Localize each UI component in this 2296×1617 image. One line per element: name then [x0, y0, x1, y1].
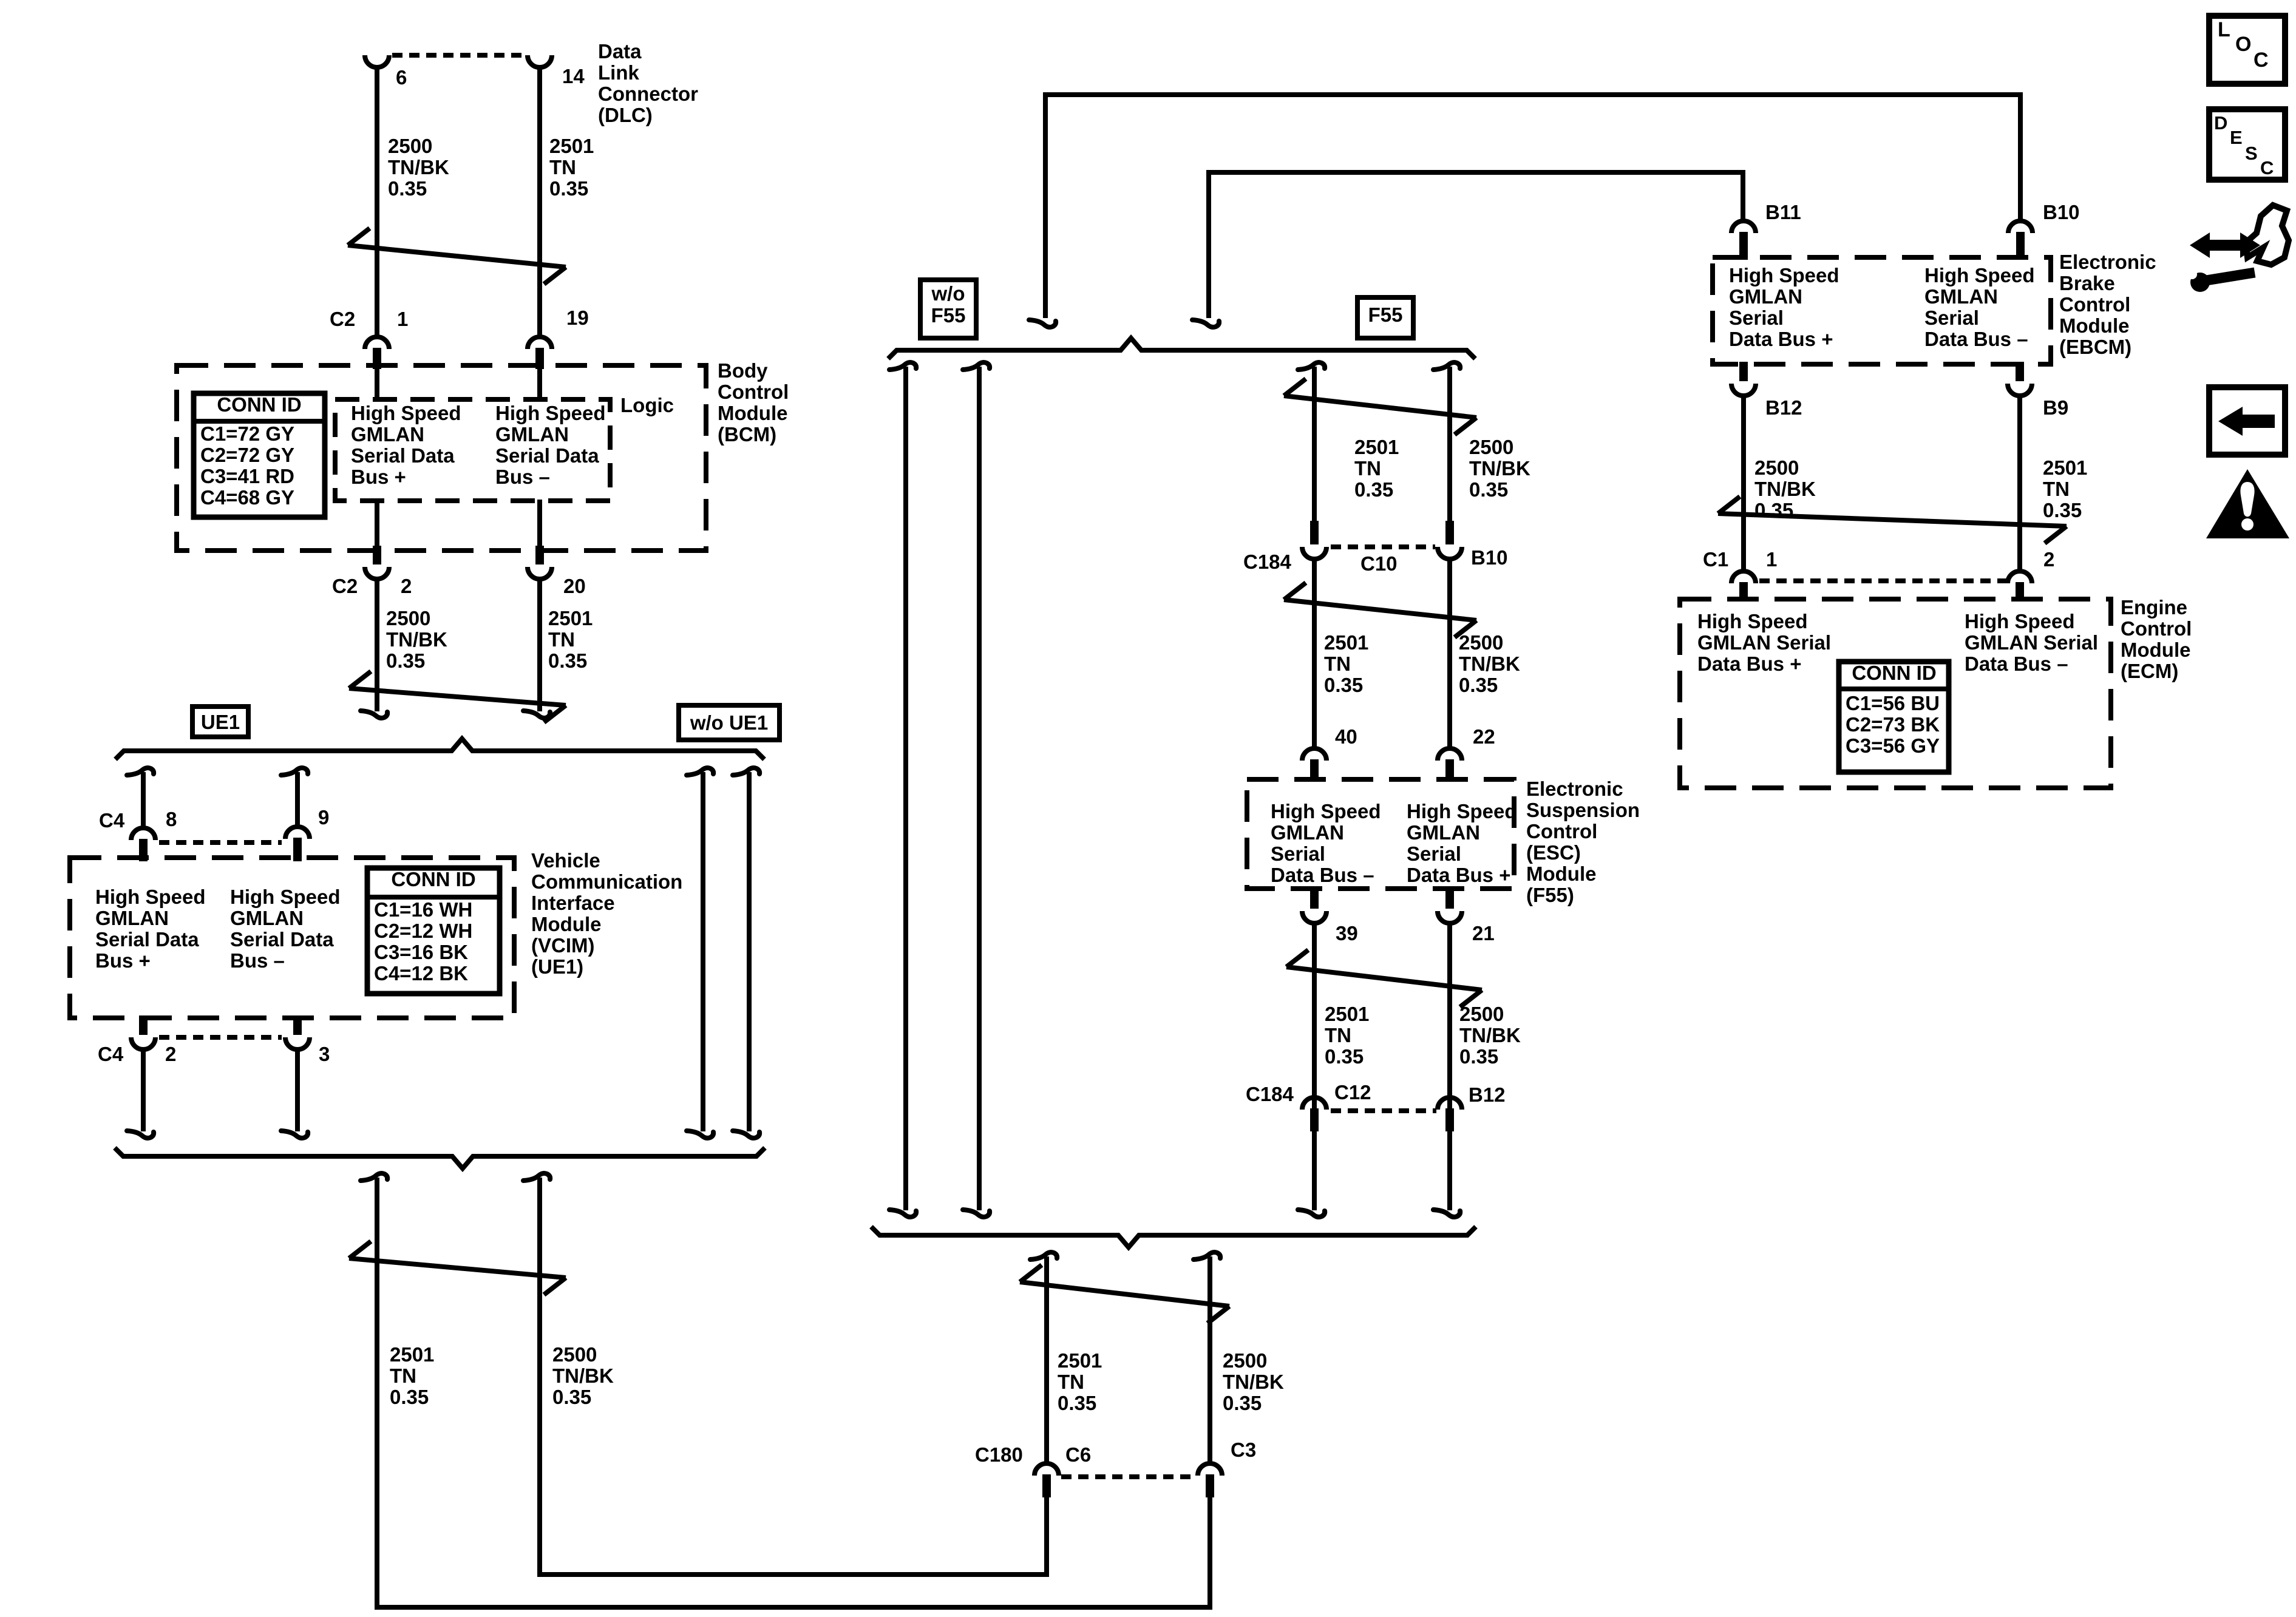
- label C180: [975, 1443, 1023, 1466]
- svg-text:TN: TN: [549, 156, 576, 178]
- svg-text:Serial: Serial: [1729, 307, 1784, 329]
- svg-text:(DLC): (DLC): [598, 104, 653, 126]
- svg-text:0.35: 0.35: [1459, 1045, 1498, 1068]
- BCM pin C2-20 terminal: [528, 546, 552, 579]
- section brace F55 bottom: [871, 1227, 1476, 1247]
- svg-text:Data Bus +: Data Bus +: [1697, 653, 1801, 675]
- svg-text:2501: 2501: [1325, 1003, 1369, 1025]
- svg-text:Bus +: Bus +: [95, 949, 151, 972]
- svg-text:TN: TN: [1324, 653, 1351, 675]
- label pin 1 ecm: [1766, 548, 1777, 571]
- VCIM pins 8-9 dashed link: [159, 840, 282, 845]
- svg-text:Bus –: Bus –: [495, 466, 550, 488]
- svg-text:Link: Link: [598, 61, 639, 84]
- svg-text:9: 9: [318, 806, 329, 829]
- VCIM label High Speed GMLAN Serial Data Bus +: [95, 886, 206, 972]
- svg-text:8: 8: [166, 808, 177, 830]
- label pin 22: [1473, 725, 1495, 748]
- svg-text:2501: 2501: [390, 1343, 434, 1366]
- BCM pin C2-2 terminal: [365, 546, 389, 579]
- svg-text:2501: 2501: [1354, 436, 1399, 458]
- svg-text:C4: C4: [98, 1043, 124, 1065]
- svg-text:High Speed: High Speed: [1924, 264, 2035, 286]
- label B12 inline: [1469, 1083, 1506, 1106]
- inline connector C180 C6 terminal: [1034, 1463, 1059, 1497]
- wire 2500 TN/BK to C3: [1194, 1252, 1220, 1462]
- svg-text:Electronic: Electronic: [2059, 251, 2156, 273]
- svg-text:20: 20: [563, 575, 586, 597]
- VCIM pins 2-3 dashed link: [159, 1035, 282, 1040]
- label pin 8: [166, 808, 177, 830]
- label wire 2501 TN 0.35 g: [1058, 1349, 1102, 1414]
- svg-text:Vehicle: Vehicle: [531, 849, 600, 872]
- EBCM pin B11 terminal: [1731, 221, 1756, 260]
- label wire 2501 TN 0.35 h: [2043, 456, 2087, 521]
- icon DESC box: [2209, 109, 2285, 180]
- svg-text:22: 22: [1473, 725, 1495, 748]
- inline connector C3 terminal: [1198, 1463, 1222, 1497]
- label wire 2501 TN 0.35 e: [1324, 631, 1368, 696]
- svg-text:Bus –: Bus –: [230, 949, 285, 972]
- svg-text:GMLAN Serial: GMLAN Serial: [1965, 631, 2098, 654]
- svg-text:S: S: [2245, 143, 2258, 164]
- connector DLC pin 14 terminal: [528, 55, 552, 67]
- svg-text:C3=16 BK: C3=16 BK: [374, 941, 468, 963]
- svg-text:C3: C3: [1231, 1439, 1256, 1461]
- svg-text:C2: C2: [330, 308, 355, 330]
- svg-text:TN: TN: [390, 1364, 416, 1387]
- VCIM pin C4-8 terminal: [131, 828, 155, 861]
- svg-text:2500: 2500: [1469, 436, 1513, 458]
- svg-text:B10: B10: [1471, 546, 1508, 569]
- label wire 2500 TN/BK 0.35 c: [552, 1343, 614, 1408]
- svg-text:0.35: 0.35: [2043, 499, 2082, 521]
- svg-text:Control: Control: [2121, 617, 2192, 640]
- svg-text:TN/BK: TN/BK: [1459, 653, 1520, 675]
- ESC pin 40 terminal: [1302, 748, 1326, 782]
- svg-text:w/o UE1: w/o UE1: [690, 711, 768, 734]
- wire to EBCM B10 top run: [1029, 95, 2020, 327]
- svg-text:Electronic: Electronic: [1526, 778, 1623, 800]
- svg-text:O: O: [2235, 33, 2251, 56]
- svg-text:(BCM): (BCM): [718, 423, 776, 446]
- svg-text:Module: Module: [718, 402, 787, 424]
- label pin 1: [397, 308, 408, 330]
- svg-text:0.35: 0.35: [548, 649, 587, 672]
- svg-text:Interface: Interface: [531, 892, 615, 914]
- svg-text:F55: F55: [931, 304, 966, 327]
- svg-text:UE1: UE1: [201, 711, 240, 733]
- svg-text:Data Bus +: Data Bus +: [1407, 864, 1510, 886]
- ESC pin 21 terminal: [1438, 886, 1462, 923]
- svg-text:C6: C6: [1065, 1443, 1091, 1466]
- module box ECM: [1680, 599, 2111, 788]
- svg-text:Serial Data: Serial Data: [495, 444, 599, 467]
- wire 2500 TN/BK from DLC pin 6: [375, 66, 379, 336]
- label B11: [1765, 201, 1801, 223]
- twisted pair symbol T3: [349, 1241, 566, 1295]
- wire C12 down: [1298, 1130, 1325, 1217]
- svg-text:B11: B11: [1765, 201, 1801, 223]
- svg-text:C: C: [2254, 49, 2269, 72]
- EBCM pin B10 terminal: [2008, 221, 2033, 260]
- svg-text:0.35: 0.35: [1324, 674, 1363, 696]
- label C10: [1360, 552, 1398, 575]
- C10-B10 dashed link: [1331, 544, 1435, 549]
- bypass wire w/o F55 right: [963, 362, 990, 1217]
- label pin 20: [563, 575, 586, 597]
- section brace UE1 bottom: [115, 1148, 765, 1168]
- label pin 6: [396, 66, 407, 89]
- wire 2501 TN from DLC pin 14: [537, 66, 542, 336]
- svg-text:TN/BK: TN/BK: [386, 628, 447, 651]
- svg-text:14: 14: [562, 65, 585, 87]
- svg-text:Data Bus +: Data Bus +: [1729, 328, 1833, 350]
- twisted pair symbol T4: [1284, 379, 1476, 435]
- svg-text:2500: 2500: [1459, 1003, 1504, 1025]
- svg-text:High Speed: High Speed: [1697, 610, 1808, 632]
- svg-text:Data Bus –: Data Bus –: [1965, 653, 2068, 675]
- wire 2500 TN/BK BCM to VCIM: [361, 580, 387, 718]
- wire ESC 21 down: [1433, 923, 1460, 1217]
- svg-text:TN/BK: TN/BK: [388, 156, 449, 178]
- svg-text:2500: 2500: [1223, 1349, 1267, 1372]
- svg-text:TN/BK: TN/BK: [552, 1364, 614, 1387]
- svg-text:0.35: 0.35: [549, 177, 588, 200]
- svg-text:1: 1: [397, 308, 408, 330]
- BCM label High Speed GMLAN Serial Data Bus -: [495, 402, 606, 488]
- svg-text:6: 6: [396, 66, 407, 89]
- label wire 2501 TN 0.35 f: [1325, 1003, 1369, 1068]
- label wire 2500 TN/BK 0.35 f: [1459, 1003, 1521, 1068]
- svg-text:19: 19: [566, 307, 589, 329]
- label box UE1: [192, 707, 248, 737]
- label C184 upper: [1243, 551, 1292, 573]
- svg-text:TN: TN: [548, 628, 575, 651]
- label wire 2500 TN/BK 0.35 e: [1459, 631, 1520, 696]
- svg-text:C2=72 GY: C2=72 GY: [200, 444, 294, 466]
- BCM label High Speed GMLAN Serial Data Bus +: [351, 402, 461, 488]
- svg-text:C184: C184: [1243, 551, 1292, 573]
- svg-text:C184: C184: [1246, 1083, 1294, 1105]
- VCIM pin C4-9 terminal: [285, 827, 310, 861]
- svg-text:Serial: Serial: [1271, 842, 1325, 865]
- ECM CONN ID table: [1839, 662, 1949, 772]
- label C184 lower: [1246, 1083, 1294, 1105]
- label pin 21: [1472, 922, 1495, 944]
- svg-text:C: C: [2260, 157, 2274, 178]
- svg-text:B12: B12: [1469, 1083, 1506, 1106]
- section brace UE1 top: [115, 739, 764, 759]
- label pin 2 vcim: [165, 1043, 176, 1065]
- module box VCIM: [70, 858, 514, 1018]
- svg-text:C3=56 GY: C3=56 GY: [1846, 734, 1940, 757]
- svg-text:3: 3: [319, 1043, 330, 1065]
- svg-text:D: D: [2214, 112, 2227, 134]
- label C6: [1065, 1443, 1091, 1466]
- module box ESC: [1247, 779, 1514, 889]
- icon warning triangle: [2206, 469, 2289, 538]
- svg-text:2: 2: [401, 575, 412, 597]
- module box BCM: [177, 365, 706, 551]
- svg-text:w/o: w/o: [931, 282, 965, 305]
- svg-text:High Speed: High Speed: [1271, 800, 1381, 822]
- BCM pin C2-19 terminal: [528, 337, 552, 369]
- label wire 2501 TN 0.35 b: [548, 607, 593, 672]
- wire VCIM pin2 down: [127, 1051, 154, 1138]
- VCIM pin C4-3 terminal: [285, 1015, 310, 1049]
- svg-text:0.35: 0.35: [552, 1386, 591, 1408]
- wire C6 down to bottom run: [1044, 1496, 1049, 1575]
- connector DLC pin 6 terminal: [365, 55, 389, 67]
- label C4 lower: [98, 1043, 124, 1065]
- label pin 40: [1335, 725, 1357, 748]
- svg-text:Module: Module: [531, 913, 601, 935]
- inline connector B10 terminal: [1438, 521, 1462, 559]
- svg-text:Brake: Brake: [2059, 272, 2115, 294]
- label C2 lower: [332, 575, 358, 597]
- svg-text:(EBCM): (EBCM): [2059, 336, 2131, 358]
- bypass wire w/o UE1 left: [687, 768, 713, 1138]
- svg-text:GMLAN: GMLAN: [1407, 821, 1480, 844]
- wire C10 to ESC 40: [1312, 559, 1317, 747]
- twisted pair symbol T1: [348, 228, 566, 284]
- svg-text:GMLAN: GMLAN: [230, 907, 304, 929]
- svg-text:(UE1): (UE1): [531, 955, 583, 978]
- svg-text:High Speed: High Speed: [495, 402, 606, 424]
- svg-text:Module: Module: [1526, 863, 1596, 885]
- wire B10 to ESC 22: [1447, 559, 1452, 747]
- svg-text:TN: TN: [1058, 1371, 1084, 1393]
- ECM label High Speed GMLAN Serial Data Bus +: [1697, 610, 1831, 675]
- svg-text:GMLAN: GMLAN: [1271, 821, 1344, 844]
- wire ESC 39 down: [1298, 923, 1325, 1217]
- svg-text:Control: Control: [1526, 820, 1597, 842]
- svg-text:21: 21: [1472, 922, 1495, 944]
- svg-text:Data Bus –: Data Bus –: [1924, 328, 2028, 350]
- EBCM label High Speed GMLAN Serial Data Bus -: [1924, 264, 2035, 350]
- icon double arrow with component and wrench: [2187, 205, 2289, 292]
- label wire 2501 TN 0.35: [549, 135, 594, 200]
- BCM internal wire pin1: [375, 368, 379, 401]
- svg-text:C1=16 WH: C1=16 WH: [374, 898, 472, 921]
- wire to EBCM B11 top run: [1192, 172, 1743, 327]
- label C2: [330, 308, 355, 330]
- svg-text:C2=73 BK: C2=73 BK: [1846, 713, 1940, 736]
- svg-text:0.35: 0.35: [1325, 1045, 1364, 1068]
- label wire 2501 TN 0.35 c: [390, 1343, 434, 1408]
- label pin 2 ecm: [2043, 548, 2054, 571]
- svg-text:2501: 2501: [1058, 1349, 1102, 1372]
- wire VCIM pin3 down: [281, 1051, 308, 1138]
- svg-text:Serial Data: Serial Data: [351, 444, 455, 467]
- inline connector C184 C12 terminal: [1302, 1097, 1326, 1131]
- ECM label High Speed GMLAN Serial Data Bus -: [1965, 610, 2098, 675]
- VCIM label High Speed GMLAN Serial Data Bus -: [230, 886, 341, 972]
- svg-text:39: 39: [1336, 922, 1358, 944]
- label pin 19: [566, 307, 589, 329]
- label pin 2: [401, 575, 412, 597]
- twisted pair symbol T7: [1020, 1265, 1229, 1323]
- label Engine Control Module (ECM): [2121, 596, 2192, 682]
- svg-text:F55: F55: [1368, 303, 1403, 326]
- svg-text:GMLAN: GMLAN: [95, 907, 169, 929]
- svg-text:C1: C1: [1703, 548, 1728, 571]
- svg-text:High Speed: High Speed: [95, 886, 206, 908]
- svg-text:C3=41 RD: C3=41 RD: [200, 465, 294, 487]
- wire B12 down: [1433, 1130, 1460, 1217]
- wire to VCIM pin 9: [281, 768, 308, 825]
- svg-text:TN: TN: [2043, 478, 2070, 500]
- svg-text:C4: C4: [99, 809, 125, 832]
- svg-text:High Speed: High Speed: [351, 402, 461, 424]
- label Electronic Brake Control Module (EBCM): [2059, 251, 2156, 358]
- svg-text:0.35: 0.35: [1469, 478, 1508, 501]
- label pin 3 vcim: [319, 1043, 330, 1065]
- label B10: [2043, 201, 2080, 223]
- icon back arrow box: [2209, 387, 2285, 455]
- svg-text:2500: 2500: [388, 135, 432, 157]
- label box w/o UE1: [679, 705, 779, 740]
- label box F55: [1357, 297, 1413, 338]
- svg-text:E: E: [2230, 127, 2243, 148]
- wire 2500 TN/BK to B10: [1433, 362, 1460, 522]
- label Electronic Suspension Control (ESC) Module (F55): [1526, 778, 1640, 906]
- VCIM CONN ID table: [367, 868, 500, 994]
- ESC label High Speed GMLAN Serial Data Bus -: [1271, 800, 1381, 886]
- svg-text:0.35: 0.35: [1223, 1392, 1262, 1414]
- C12-B12 dashed link: [1331, 1108, 1436, 1113]
- svg-text:GMLAN Serial: GMLAN Serial: [1697, 631, 1831, 654]
- svg-text:2500: 2500: [552, 1343, 597, 1366]
- svg-text:TN/BK: TN/BK: [1469, 457, 1530, 480]
- label B12: [1765, 396, 1802, 419]
- svg-text:Module: Module: [2059, 314, 2129, 337]
- svg-text:Engine: Engine: [2121, 596, 2187, 619]
- svg-text:(VCIM): (VCIM): [531, 934, 594, 957]
- twisted pair symbol T8: [1718, 497, 2067, 543]
- BCM CONN ID table: [194, 393, 325, 517]
- label wire 2500 TN/BK 0.35 g: [1223, 1349, 1284, 1414]
- svg-text:GMLAN: GMLAN: [1924, 285, 1998, 308]
- svg-text:High Speed: High Speed: [1407, 800, 1517, 822]
- label box w/o F55: [920, 280, 976, 338]
- svg-text:Suspension: Suspension: [1526, 799, 1640, 821]
- label Vehicle Communication Interface Module (VCIM) (UE1): [531, 849, 682, 978]
- label wire 2500 TN/BK 0.35 d: [1469, 436, 1530, 501]
- svg-text:1: 1: [1766, 548, 1777, 571]
- svg-text:B12: B12: [1765, 396, 1802, 419]
- svg-text:L: L: [2218, 18, 2230, 41]
- wire C3 down to bottom run: [1207, 1496, 1212, 1607]
- BCM internal wire to pin2: [375, 500, 379, 549]
- svg-text:TN/BK: TN/BK: [1754, 478, 1816, 500]
- svg-text:0.35: 0.35: [386, 649, 425, 672]
- svg-text:Module: Module: [2121, 639, 2190, 661]
- icon LOC box: [2209, 16, 2285, 84]
- ESC label High Speed GMLAN Serial Data Bus +: [1407, 800, 1517, 886]
- label pin 14: [562, 65, 585, 87]
- svg-text:C2: C2: [332, 575, 358, 597]
- svg-text:C4=12 BK: C4=12 BK: [374, 962, 468, 985]
- svg-text:Logic: Logic: [620, 394, 674, 416]
- wire 2501 TN EBCM to ECM: [2017, 396, 2022, 570]
- label C1: [1703, 548, 1728, 571]
- svg-text:CONN ID: CONN ID: [391, 868, 475, 890]
- svg-text:0.35: 0.35: [1058, 1392, 1096, 1414]
- svg-text:C1=72 GY: C1=72 GY: [200, 422, 294, 445]
- label B10 inline: [1471, 546, 1508, 569]
- bypass wire w/o UE1 right: [733, 768, 759, 1138]
- svg-text:0.35: 0.35: [1354, 478, 1393, 501]
- svg-text:Serial Data: Serial Data: [95, 928, 199, 951]
- svg-text:Body: Body: [718, 359, 768, 382]
- ECM C1 pins dashed link: [1759, 578, 2006, 583]
- module box EBCM: [1713, 257, 2051, 364]
- wire 2501 TN BCM to VCIM: [523, 580, 550, 718]
- svg-text:Control: Control: [718, 381, 789, 403]
- svg-text:Communication: Communication: [531, 870, 682, 893]
- svg-text:2: 2: [165, 1043, 176, 1065]
- svg-text:Bus +: Bus +: [351, 466, 406, 488]
- svg-text:2: 2: [2043, 548, 2054, 571]
- EBCM pin B12 terminal: [1731, 362, 1756, 396]
- svg-text:C12: C12: [1334, 1081, 1371, 1103]
- ESC pin 22 terminal: [1438, 748, 1462, 782]
- label Data Link Connector (DLC): [598, 40, 698, 126]
- svg-text:2501: 2501: [549, 135, 594, 157]
- inline connector C184 C10 terminal: [1302, 521, 1326, 559]
- BCM pin C2-1 terminal: [365, 337, 389, 369]
- BCM internal wire pin19: [537, 368, 542, 401]
- svg-text:CONN ID: CONN ID: [217, 393, 301, 416]
- inline connector B12 terminal: [1438, 1097, 1462, 1131]
- svg-text:2501: 2501: [548, 607, 593, 629]
- svg-text:Serial Data: Serial Data: [230, 928, 334, 951]
- label Body Control Module (BCM): [718, 359, 789, 446]
- svg-text:Data Bus –: Data Bus –: [1271, 864, 1374, 886]
- svg-text:GMLAN: GMLAN: [351, 423, 424, 446]
- EBCM pin B9 terminal: [2008, 362, 2032, 396]
- svg-text:Connector: Connector: [598, 83, 698, 105]
- svg-text:2500: 2500: [1459, 631, 1503, 654]
- svg-text:2500: 2500: [1754, 456, 1799, 479]
- svg-text:0.35: 0.35: [390, 1386, 429, 1408]
- svg-text:TN/BK: TN/BK: [1459, 1024, 1521, 1046]
- svg-text:High Speed: High Speed: [1965, 610, 2075, 632]
- twisted pair symbol T5: [1284, 583, 1476, 637]
- svg-text:(ESC): (ESC): [1526, 841, 1581, 864]
- svg-text:TN: TN: [1325, 1024, 1351, 1046]
- svg-text:2501: 2501: [1324, 631, 1368, 654]
- wire to VCIM pin 8: [127, 768, 154, 827]
- svg-text:High Speed: High Speed: [1729, 264, 1839, 286]
- wire 2501 TN to C6: [1030, 1252, 1057, 1462]
- svg-text:Control: Control: [2059, 293, 2130, 316]
- svg-text:2500: 2500: [386, 607, 430, 629]
- svg-text:(F55): (F55): [1526, 884, 1574, 906]
- svg-text:GMLAN: GMLAN: [1729, 285, 1802, 308]
- ECM pin C1-1 terminal: [1731, 571, 1756, 602]
- svg-text:B9: B9: [2043, 396, 2068, 419]
- DLC inline connector dashed link: [392, 53, 525, 58]
- label pin 39: [1336, 922, 1358, 944]
- label pin 9: [318, 806, 329, 829]
- svg-text:Serial: Serial: [1407, 842, 1461, 865]
- svg-text:(ECM): (ECM): [2121, 660, 2178, 682]
- svg-text:C10: C10: [1360, 552, 1398, 575]
- twisted pair symbol T2: [349, 671, 566, 722]
